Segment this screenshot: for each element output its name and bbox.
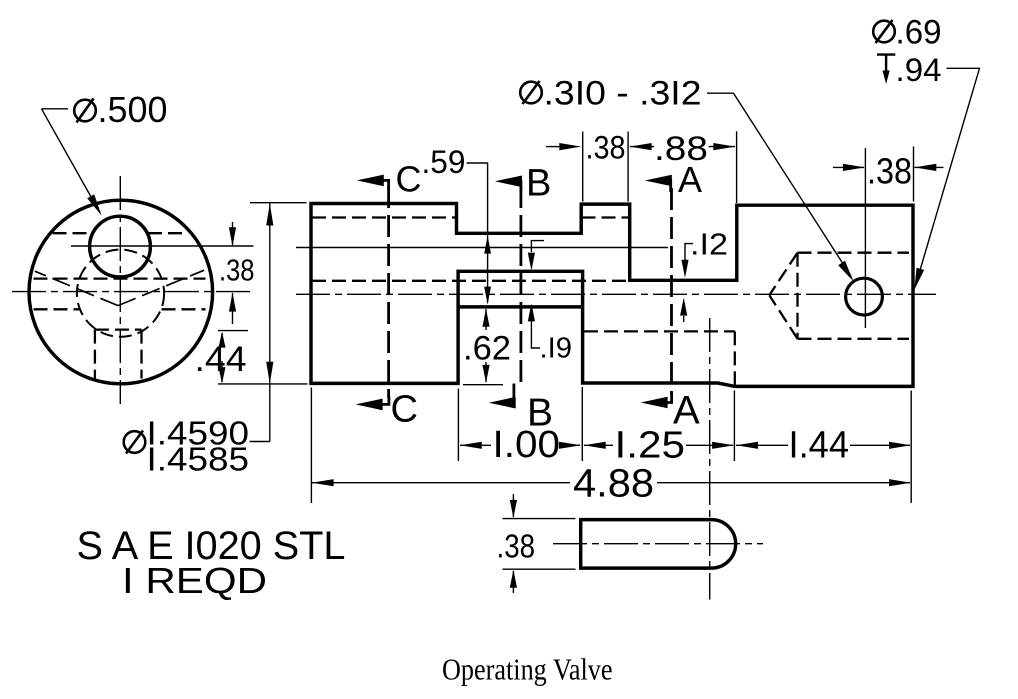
keyseat .38 dimension <box>503 518 576 520</box>
Ø.500 hole horizontal center line <box>71 245 254 247</box>
keyseat center lines <box>709 318 711 600</box>
1.44 dimension <box>736 444 788 446</box>
svg-text:.38: .38 <box>867 151 912 192</box>
section line C-C <box>387 186 390 398</box>
.38 dimension (hole to end) <box>913 147 915 202</box>
1.00 dimension <box>460 444 491 446</box>
hidden counterbore circle <box>77 250 164 337</box>
hidden Ø.500 bore top line <box>312 216 456 218</box>
svg-text:I REQD: I REQD <box>122 560 267 601</box>
svg-text:I.00: I.00 <box>493 424 561 466</box>
part outline <box>311 204 913 387</box>
svg-text:.59: .59 <box>422 144 466 180</box>
Ø1.4590/1.4585 diameter dimension <box>250 202 307 204</box>
.38 dimension (neck ring) <box>546 146 560 148</box>
hidden chord: groove bottom plane <box>34 277 206 279</box>
svg-text:.38: .38 <box>497 528 536 565</box>
main axis center line <box>296 293 936 295</box>
svg-text:I.4585: I.4585 <box>147 441 250 478</box>
svg-text:.62: .62 <box>463 330 511 368</box>
svg-text:B: B <box>526 163 551 205</box>
svg-text:.38: .38 <box>219 253 255 288</box>
svg-text:.3I0 - .3I2: .3I0 - .3I2 <box>544 75 702 113</box>
end view outer circle (Ø1.459 cylinder) <box>29 200 213 384</box>
svg-text:4.88: 4.88 <box>573 462 654 506</box>
end view vertical center line <box>119 176 121 404</box>
Ø.500 hole circle <box>90 216 151 277</box>
.12 dimension <box>685 244 693 260</box>
svg-text:.38: .38 <box>586 130 626 166</box>
4.88 dimension <box>312 482 570 484</box>
extension lines <box>582 132 584 202</box>
svg-text:.44: .44 <box>195 340 247 379</box>
svg-text:C: C <box>396 159 422 200</box>
svg-text:I.44: I.44 <box>789 425 850 467</box>
1.25 dimension <box>584 444 613 446</box>
svg-text:.88: .88 <box>654 130 708 168</box>
hidden keyway line <box>584 330 735 332</box>
svg-text:Operating Valve: Operating Valve <box>442 652 613 687</box>
svg-text:.I2: .I2 <box>690 227 728 262</box>
extension lines <box>457 389 459 462</box>
hidden keyway slot <box>94 330 96 379</box>
Ø.310 cross hole circle <box>846 278 883 315</box>
hidden chord: C-C flat plane <box>53 232 92 234</box>
svg-text:.500: .500 <box>98 89 168 130</box>
hidden Ø.69 end bore <box>798 252 910 254</box>
svg-text:.I9: .I9 <box>540 333 573 365</box>
milled flat band bottom edge <box>458 305 582 308</box>
Ø.500 bore center line <box>296 247 668 249</box>
svg-text:.94: .94 <box>896 52 942 88</box>
.19 dimension <box>531 241 544 252</box>
.44 end-view dimension <box>218 330 248 332</box>
.88 dimension <box>630 146 654 148</box>
.62 dimension <box>485 309 487 330</box>
hidden chord: milled flat bottom plane <box>34 308 80 310</box>
svg-text:.69: .69 <box>896 14 942 52</box>
hidden Ø.500 bore bottom line <box>312 280 629 282</box>
hidden drill cone V lines <box>35 271 118 305</box>
cross hole vertical center line <box>864 148 866 328</box>
hidden drill cone <box>769 253 797 296</box>
Ø.310-.312 label and leader <box>520 82 542 104</box>
Ø.69 / depth .94 label and leader <box>873 21 895 43</box>
section line A-A <box>670 188 673 395</box>
keyseat slot outline <box>581 520 736 569</box>
svg-text:C: C <box>391 389 418 431</box>
.38 end-view dimension <box>232 222 234 245</box>
svg-text:I.25: I.25 <box>615 425 686 467</box>
section line B-B <box>520 186 523 383</box>
end view horizontal center line <box>12 291 254 293</box>
Ø.500 leader and label <box>42 109 100 213</box>
